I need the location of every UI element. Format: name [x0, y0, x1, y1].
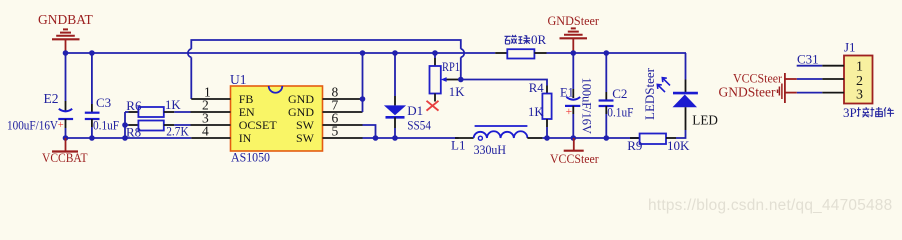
node junction RP1 top: [432, 50, 438, 56]
pin 6 SW: [323, 124, 363, 126]
node junction C2 top: [604, 50, 610, 56]
svg-text:R8: R8: [126, 125, 141, 140]
svg-text:C2: C2: [612, 86, 627, 101]
svg-text:E2: E2: [44, 91, 59, 106]
node junction R8 left: [122, 122, 128, 128]
node junction D1 bottom: [392, 135, 398, 141]
no-ERC marker (red X): [427, 101, 439, 111]
svg-text:R9: R9: [627, 138, 642, 153]
pin 2 J1: [822, 78, 844, 80]
pin 3 OCSET: [191, 124, 231, 126]
svg-text:E1: E1: [560, 86, 574, 100]
svg-text:J1: J1: [844, 40, 856, 55]
wire SW rail L1 to R4: [542, 137, 630, 139]
node junction C2 bottom: [604, 135, 610, 141]
svg-text:0R: 0R: [531, 32, 547, 47]
svg-text:GNDSteer: GNDSteer: [719, 85, 777, 100]
wire SW rail right section: [630, 137, 640, 139]
svg-text:VCCSteer: VCCSteer: [550, 152, 599, 166]
pin 1 FB: [191, 98, 230, 100]
svg-text:+: +: [58, 120, 64, 131]
svg-text:GNDBAT: GNDBAT: [38, 12, 94, 27]
node junction C3 bottom: [89, 135, 95, 141]
svg-text:0.1uF: 0.1uF: [93, 119, 119, 133]
pin 5 SW: [323, 137, 363, 139]
svg-text:SW: SW: [296, 131, 315, 145]
svg-text:OCSET: OCSET: [239, 118, 278, 132]
wire J1 pin3: [797, 92, 823, 94]
ferrite bead 磁珠 0R: [495, 32, 546, 59]
connector label 3P接插件: [843, 105, 894, 120]
svg-text:+: +: [566, 106, 573, 118]
wire SW rail y=138: [363, 137, 459, 139]
wire vertical FB to pin1: [190, 57, 192, 99]
wire wiper to R4: [461, 80, 547, 86]
power VCCSteer port at J1: [733, 72, 797, 103]
svg-text:IN: IN: [239, 131, 252, 145]
node junction RP1 wiper: [458, 77, 464, 83]
svg-text:R6: R6: [126, 98, 142, 113]
capacitor E1 (electrolytic 100uF/16V): [560, 53, 594, 138]
IC U1 AS1050: [230, 72, 323, 165]
resistor R9 10K: [627, 134, 690, 154]
potentiometer RP1 1K: [430, 53, 466, 102]
svg-text:VCCSteer: VCCSteer: [733, 72, 783, 86]
wire VCCBAT rail y=138: [66, 137, 192, 139]
svg-text:GNDSteer: GNDSteer: [548, 14, 600, 28]
LED: [657, 78, 718, 138]
svg-text:5: 5: [332, 123, 339, 138]
svg-text:C3: C3: [96, 95, 111, 110]
node junction GND rail x=362.5: [360, 50, 366, 56]
connector J1 3P: [844, 40, 873, 104]
svg-text:SS54: SS54: [407, 118, 431, 132]
node junction D1 top: [392, 50, 398, 56]
svg-text:1: 1: [856, 59, 863, 74]
node junction R4 bottom: [544, 135, 550, 141]
ground GNDSteer: [548, 14, 600, 53]
svg-text:LED: LED: [692, 112, 718, 127]
wire GND pins to rail (vertical x=362.5): [362, 53, 364, 112]
wire vertical x=461 to RP1 wiper: [460, 57, 462, 79]
wire hop at x=191 over GND rail: [188, 49, 191, 57]
ground GNDBAT: [38, 12, 94, 53]
svg-text:100uF/16V: 100uF/16V: [7, 119, 59, 133]
pin 1 J1: [822, 65, 844, 67]
wire GND rail right of bead: [547, 52, 687, 54]
svg-text:10K: 10K: [667, 139, 690, 153]
svg-text:0.1uF: 0.1uF: [607, 106, 633, 120]
svg-text:3P: 3P: [843, 105, 857, 120]
svg-text:100uF/16V: 100uF/16V: [580, 78, 594, 135]
wire J1 pin1 (C31): [797, 65, 823, 67]
wire SW pin6 corner: [363, 125, 376, 138]
svg-text:1K: 1K: [165, 98, 181, 112]
svg-text:GND: GND: [288, 92, 314, 106]
svg-text:330uH: 330uH: [474, 143, 506, 157]
node junction C3 top: [89, 50, 95, 56]
capacitor C3 0.1uF: [85, 53, 119, 138]
svg-text:RP1: RP1: [442, 60, 460, 74]
node junction E1 bottom: [571, 135, 577, 141]
wire GND rail corner down to LED anode: [685, 53, 687, 80]
svg-text:1K: 1K: [449, 85, 465, 99]
svg-text:https://blog.csdn.net/qq_44705: https://blog.csdn.net/qq_44705488: [648, 197, 892, 214]
power VCCSteer: [550, 138, 599, 166]
pin 7 GND: [323, 111, 363, 113]
svg-text:C31: C31: [797, 52, 819, 67]
svg-text:U1: U1: [230, 72, 247, 87]
svg-text:VCCBAT: VCCBAT: [42, 151, 88, 165]
svg-text:4: 4: [202, 123, 209, 138]
power VCCBAT: [42, 138, 88, 165]
resistor R6 1K: [125, 98, 191, 117]
svg-text:2.7K: 2.7K: [166, 124, 189, 138]
svg-text:1K: 1K: [528, 105, 544, 119]
svg-text:L1: L1: [451, 137, 465, 152]
wire J1 pin2: [797, 78, 823, 80]
node junction R6/R8 branch: [122, 135, 128, 141]
svg-text:R4: R4: [529, 81, 545, 95]
capacitor C2 0.1uF: [599, 53, 634, 138]
wire vertical x=125 (R6/R8 left common): [124, 112, 126, 138]
node junction SW pin5/6: [373, 135, 379, 141]
ground GNDSteer port at J1: [719, 84, 797, 100]
resistor R8 2.7K: [125, 121, 191, 140]
wire FB rail y=40: [191, 40, 461, 49]
pin 4 IN: [191, 137, 230, 139]
capacitor E2 (electrolytic 100uF/16V): [7, 53, 73, 138]
node junction pin8: [360, 96, 366, 102]
svg-text:EN: EN: [239, 105, 255, 119]
pin 3 J1: [822, 92, 844, 94]
svg-text:D1: D1: [407, 103, 423, 118]
svg-text:GND: GND: [288, 105, 314, 119]
pin 2 EN: [191, 111, 231, 113]
svg-text:3: 3: [856, 87, 863, 102]
inductor L1 330uH: [451, 126, 542, 157]
wire hop at x=461 over GND rail: [461, 49, 464, 57]
svg-text:SW: SW: [296, 118, 315, 132]
node junction GNDBAT/E2: [63, 50, 69, 56]
svg-text:AS1050: AS1050: [231, 150, 270, 165]
node junction GNDSteer: [571, 50, 577, 56]
resistor R4 1K: [528, 81, 552, 138]
diode D1 SS54: [384, 53, 432, 138]
wire GND rail y=53: [66, 52, 496, 54]
node junction E2 bottom: [63, 135, 69, 141]
svg-text:FB: FB: [239, 92, 254, 106]
svg-text:LEDSteer: LEDSteer: [642, 67, 657, 120]
pin 8 GND: [323, 98, 363, 100]
